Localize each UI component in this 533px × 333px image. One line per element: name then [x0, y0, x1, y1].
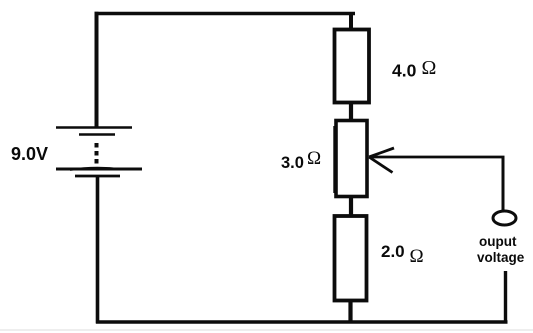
wire output lower vertical — [504, 271, 507, 322]
wire stub R 4.0 to potentiometer — [349, 102, 353, 121]
output terminal — [493, 211, 516, 225]
svg-text:ouput: ouput — [479, 234, 517, 249]
svg-text:4.0: 4.0 — [392, 61, 417, 81]
resistor 4.0 ohm — [335, 30, 370, 103]
svg-text:2.0: 2.0 — [381, 242, 405, 261]
faint page edge line — [0, 329, 533, 331]
label 3.0 ohm — [281, 148, 321, 172]
wire left vertical upper (battery positive lead) — [95, 12, 99, 127]
wire output upper vertical — [502, 156, 505, 211]
potentiometer wiper arrow — [369, 148, 394, 173]
wire stub top rail to R 4.0 — [349, 12, 353, 30]
label 2.0 ohm — [381, 242, 424, 267]
svg-text:3.0: 3.0 — [281, 154, 304, 172]
wire bottom rail — [96, 320, 508, 323]
svg-text:Ω: Ω — [410, 246, 424, 267]
wire stub potentiometer to R 2.0 — [349, 196, 353, 216]
wire stub R 2.0 to bottom rail — [348, 300, 352, 323]
potentiometer left edge double stroke — [333, 126, 335, 193]
svg-text:Ω: Ω — [307, 148, 321, 169]
resistor 2.0 ohm — [335, 216, 367, 301]
wire left vertical lower (battery negative lead) — [96, 175, 100, 324]
wire wiper horizontal — [369, 156, 505, 159]
label 4.0 ohm — [392, 57, 436, 81]
svg-text:voltage: voltage — [477, 250, 525, 265]
wire top rail — [95, 12, 356, 15]
potentiometer 3.0 ohm body — [336, 121, 367, 197]
svg-text:Ω: Ω — [422, 57, 437, 79]
svg-text:9.0V: 9.0V — [11, 144, 48, 164]
label output voltage — [477, 234, 525, 265]
battery 9.0V — [56, 128, 142, 177]
